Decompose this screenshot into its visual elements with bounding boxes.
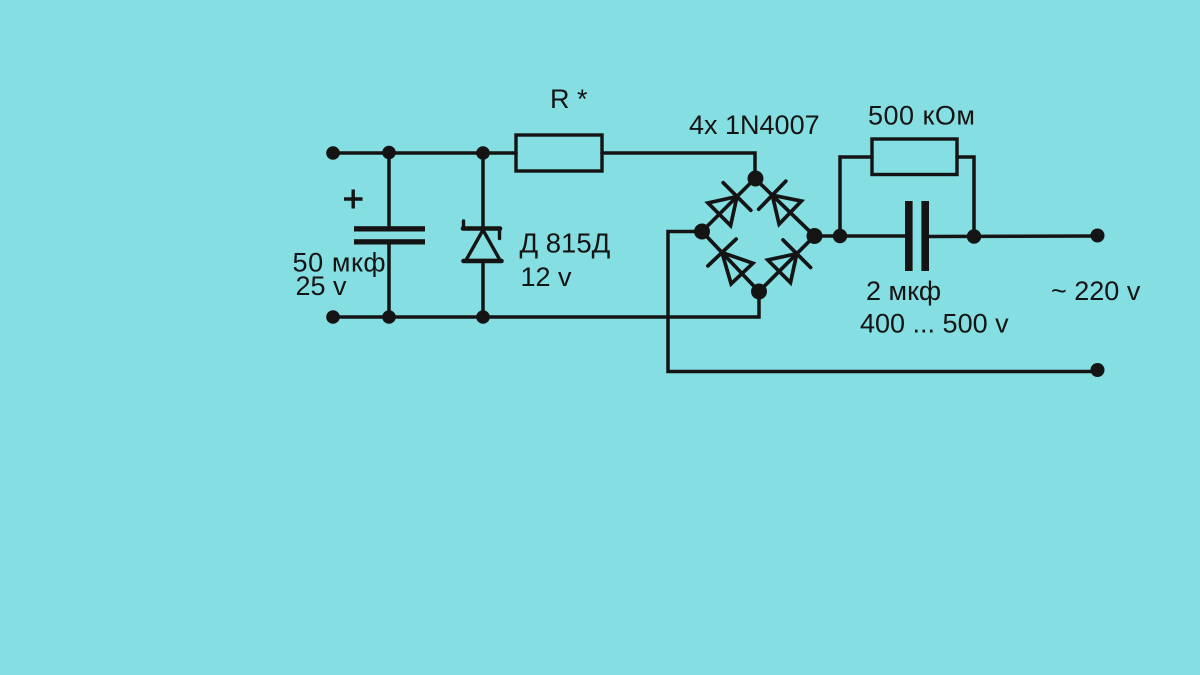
wire bridge left vertex to lower output xyxy=(668,232,1097,372)
resistor R* xyxy=(516,135,602,171)
svg-text:Д 815Д: Д 815Д xyxy=(520,228,611,259)
zener diode VD1 Д815Д xyxy=(463,221,502,261)
node VD1 top xyxy=(476,146,490,160)
capacitor C2 2 мкф plates xyxy=(905,201,929,271)
svg-text:400 ... 500 v: 400 ... 500 v xyxy=(860,309,1009,339)
svg-text:12 v: 12 v xyxy=(521,262,573,292)
diode VD2 bridge top-left xyxy=(702,179,755,232)
wire R* to bridge top xyxy=(602,153,755,179)
capacitor C1 polarity plus sign xyxy=(344,190,363,209)
terminal output top xyxy=(1091,229,1105,243)
diode VD4 bridge bottom-left xyxy=(702,232,759,292)
wire zener VD1 bottom lead xyxy=(481,261,485,317)
wire node A up to resistor 500k left stub xyxy=(840,157,872,236)
wire capacitor C2 right plate to upper output xyxy=(929,234,1097,238)
node bridge top vertex xyxy=(748,171,764,187)
svg-text:~ 220 v: ~ 220 v xyxy=(1051,276,1141,306)
svg-text:4x 1N4007: 4x 1N4007 xyxy=(689,110,820,140)
capacitor C1 50 мкф plates xyxy=(354,226,425,244)
node B xyxy=(967,229,981,243)
svg-text:2 мкф: 2 мкф xyxy=(866,276,941,306)
terminal input bottom xyxy=(326,310,340,324)
node C1 bottom xyxy=(382,310,396,324)
wire bridge right vertex to node A xyxy=(815,234,841,238)
node bridge right vertex xyxy=(807,228,823,244)
node C1 top xyxy=(382,146,396,160)
svg-text:500 кОм: 500 кОм xyxy=(868,101,975,131)
node VD1 bottom xyxy=(476,310,490,324)
diode VD3 bridge top-right xyxy=(755,179,815,237)
terminal input top xyxy=(326,146,340,160)
wire node A to capacitor C2 left plate xyxy=(840,234,905,238)
node bridge left vertex xyxy=(694,224,710,240)
wire capacitor C1 top lead xyxy=(387,153,391,227)
svg-text:R *: R * xyxy=(550,84,588,114)
node bridge bottom vertex xyxy=(751,284,767,300)
node A xyxy=(833,229,847,243)
wire capacitor C1 bottom lead xyxy=(387,244,391,317)
svg-text:25 v: 25 v xyxy=(296,271,348,301)
wire zener VD1 top lead xyxy=(481,153,485,228)
wire top rail xyxy=(333,151,516,155)
wire resistor 500k right stub down to node B xyxy=(957,157,974,237)
resistor R2 500 кОм xyxy=(872,139,957,175)
diode VD5 bridge bottom-right xyxy=(759,236,815,292)
wire bottom rail xyxy=(333,292,759,318)
terminal output bottom xyxy=(1091,363,1105,377)
